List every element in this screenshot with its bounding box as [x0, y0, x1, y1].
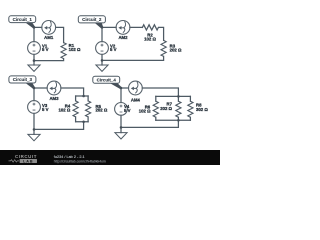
- svg-text:5 V: 5 V: [42, 47, 49, 52]
- svg-text:http://circuitlab.com/c7k4ta9k: http://circuitlab.com/c7k4ta9kk4om: [54, 160, 106, 164]
- svg-text:102 Ω: 102 Ω: [69, 47, 81, 52]
- svg-text:202 Ω: 202 Ω: [96, 108, 108, 113]
- svg-text:AM1: AM1: [44, 35, 54, 40]
- svg-text:Circuit_3: Circuit_3: [13, 77, 33, 82]
- svg-text:102 Ω: 102 Ω: [139, 108, 151, 113]
- svg-text:5 V: 5 V: [110, 47, 117, 52]
- svg-text:Circuit_1: Circuit_1: [13, 17, 33, 22]
- svg-text:AM4: AM4: [131, 97, 141, 102]
- svg-text:202 Ω: 202 Ω: [170, 47, 182, 52]
- svg-text:Circuit_2: Circuit_2: [82, 17, 102, 22]
- svg-text:5 V: 5 V: [124, 108, 131, 113]
- svg-text:102 Ω: 102 Ω: [144, 36, 156, 41]
- svg-text:LAB: LAB: [23, 159, 33, 163]
- svg-text:AM2: AM2: [118, 35, 128, 40]
- svg-text:102 Ω: 102 Ω: [58, 108, 70, 113]
- svg-text:Circuit_4: Circuit_4: [97, 77, 117, 82]
- svg-text:302 Ω: 302 Ω: [196, 107, 208, 112]
- svg-text:AM3: AM3: [49, 96, 59, 101]
- svg-text:fu234 / Lab 2 - 2.1: fu234 / Lab 2 - 2.1: [54, 155, 85, 159]
- svg-text:202 Ω: 202 Ω: [160, 106, 172, 111]
- svg-text:5 V: 5 V: [42, 107, 49, 112]
